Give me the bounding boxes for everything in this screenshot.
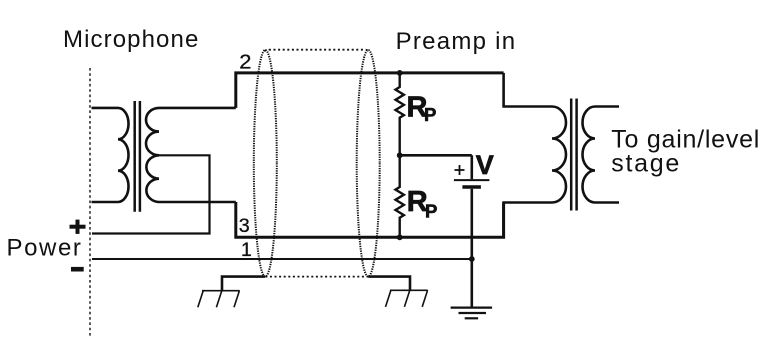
- svg-text:1: 1: [241, 239, 252, 261]
- svg-text:Microphone: Microphone: [63, 26, 199, 53]
- power plus symbol: [70, 220, 86, 234]
- label RP1: [407, 91, 437, 125]
- svg-text:3: 3: [239, 215, 250, 237]
- resistor RP2 (bottom): [396, 155, 404, 237]
- right chassis ground: [386, 290, 428, 307]
- T2 primary winding: [504, 107, 566, 238]
- microphone boundary dashed line: [89, 68, 91, 336]
- power minus symbol: [71, 267, 84, 272]
- wire T1 center tap to power plus: [92, 155, 210, 233]
- T1 core lines: [133, 101, 136, 212]
- label To gain/level stage: [611, 125, 760, 177]
- T2 secondary winding: [583, 107, 620, 203]
- wire pin1 power minus ground line: [92, 258, 472, 260]
- left chassis ground: [198, 291, 240, 308]
- node dot pin1/battery ground: [469, 256, 475, 262]
- wire pin2 vertical from T1 secondary top: [236, 73, 504, 108]
- node dot mid/RP junction: [397, 152, 403, 158]
- wire mid line node to battery: [400, 154, 472, 157]
- T1 primary winding: [92, 108, 129, 202]
- svg-text:P: P: [425, 200, 437, 221]
- battery plus sign: [455, 165, 465, 175]
- cable shield left ellipse: [254, 50, 277, 277]
- svg-text:stage: stage: [611, 150, 681, 178]
- T2 core lines: [570, 99, 573, 211]
- cable shield right ellipse: [357, 50, 380, 277]
- node dot pin2/RP1: [397, 70, 403, 76]
- cable shield bottom line: [265, 276, 368, 278]
- svg-text:V: V: [476, 150, 494, 180]
- transformer T1 (microphone): [92, 101, 236, 212]
- wire preamp top to T2 primary: [504, 73, 552, 107]
- svg-text:Power: Power: [7, 234, 83, 261]
- battery V: [454, 155, 490, 307]
- resistor RP1 (top): [396, 73, 404, 155]
- svg-text:2: 2: [239, 51, 251, 73]
- earth ground: [451, 308, 493, 319]
- wire shield to right chassis ground: [368, 277, 410, 291]
- label RP2: [407, 186, 438, 221]
- cable shield top line: [265, 50, 370, 52]
- node dot pin3/RP2: [397, 234, 403, 240]
- T1 secondary winding with center tap: [146, 108, 236, 202]
- wire pin3 from T1 secondary bottom: [236, 202, 504, 237]
- svg-text:Preamp in: Preamp in: [396, 28, 517, 55]
- wire shield to left chassis ground: [222, 277, 265, 291]
- transformer T2 (preamp): [504, 99, 619, 238]
- svg-text:P: P: [424, 104, 436, 125]
